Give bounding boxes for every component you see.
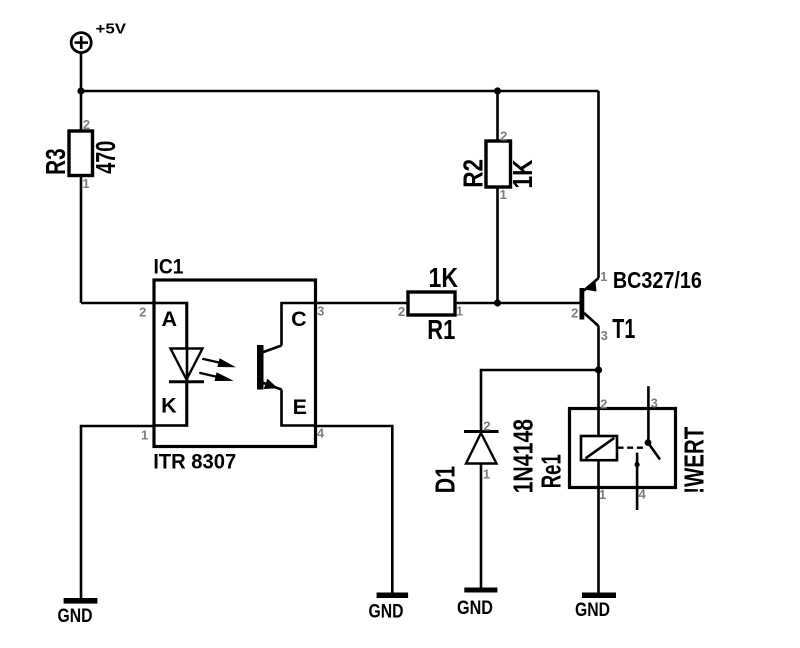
junction rail-left: [77, 87, 84, 94]
phototransistor emitter: [262, 379, 282, 390]
svg-text:4: 4: [638, 486, 646, 501]
ground GND4: [575, 593, 616, 622]
LED cathode lead: [185, 382, 188, 426]
svg-text:ITR 8307: ITR 8307: [153, 449, 236, 473]
LED triangle: [171, 349, 203, 380]
phototransistor base bar: [257, 345, 264, 390]
svg-text:GND: GND: [575, 600, 610, 621]
relay switch common lead pin 3: [647, 386, 650, 442]
svg-text:1K: 1K: [429, 262, 459, 293]
wire junction to relay coil: [597, 370, 600, 436]
wire IC1 pin4 to GND: [316, 426, 393, 593]
svg-text:1: 1: [456, 303, 463, 318]
svg-text:IC1: IC1: [154, 254, 184, 278]
IC1 phototransistor box: [282, 303, 316, 426]
svg-text:1: 1: [141, 428, 148, 443]
wire top rail: [81, 90, 599, 93]
svg-text:K: K: [161, 393, 177, 417]
resistor R1: [408, 292, 455, 315]
svg-text:GND: GND: [369, 601, 404, 622]
svg-text:1K: 1K: [507, 160, 538, 189]
IC1 LED box: [154, 303, 187, 426]
wire coil to GND: [597, 460, 600, 592]
T1 emitter wire from rail: [597, 91, 600, 278]
wire R2 to base wire: [496, 187, 499, 303]
LED anode lead: [185, 303, 188, 349]
svg-text:3: 3: [651, 396, 658, 411]
svg-text:4: 4: [317, 426, 325, 441]
resistor R3: [69, 131, 93, 176]
ground GND2: [369, 593, 409, 623]
svg-text:R2: R2: [457, 159, 488, 188]
svg-text:2: 2: [398, 304, 405, 319]
svg-text:3: 3: [601, 328, 608, 343]
svg-text:R3: R3: [40, 148, 71, 175]
svg-text:2: 2: [571, 306, 578, 321]
svg-text:A: A: [162, 307, 178, 331]
svg-text:C: C: [291, 307, 307, 331]
diode D1 triangle: [466, 433, 497, 464]
op-amp IC1 outer box: [154, 280, 316, 447]
svg-text:3: 3: [317, 303, 324, 318]
svg-text:1N4148: 1N4148: [508, 419, 539, 494]
svg-text:GND: GND: [58, 606, 93, 627]
wire R1 to T1 base: [455, 302, 580, 305]
relay Re1 box: [570, 409, 676, 488]
svg-text:1: 1: [500, 187, 507, 202]
T1 emitter diagonal with arrow: [584, 278, 599, 291]
wire IC1 pin1 to GND: [81, 426, 154, 598]
phototransistor collector: [262, 346, 282, 353]
junction T1-D1-relay: [595, 366, 602, 373]
relay NO contact dot: [635, 462, 640, 467]
svg-text:2: 2: [483, 419, 490, 434]
light arrow 1: [202, 358, 236, 367]
relay coil: [581, 436, 617, 460]
svg-text:Re1: Re1: [536, 454, 567, 488]
junction R1-R2: [494, 299, 501, 306]
svg-text:1: 1: [483, 467, 490, 482]
junction rail-R2: [494, 87, 501, 94]
svg-text:D1: D1: [430, 466, 461, 493]
ground GND1: [58, 598, 98, 627]
wire rail to R2: [496, 91, 499, 141]
relay switch pivot: [645, 439, 652, 446]
wire junction to D1: [481, 370, 599, 432]
wire to IC1 left: [81, 302, 154, 305]
wire IC1 pin3 to R1: [316, 302, 409, 305]
svg-text:1: 1: [599, 487, 606, 502]
relay switch blade: [648, 443, 660, 460]
svg-text:E: E: [293, 395, 307, 419]
svg-text:1: 1: [600, 269, 607, 284]
wire D1 to GND: [480, 464, 483, 588]
svg-text:2: 2: [139, 304, 146, 319]
svg-text:GND: GND: [457, 598, 493, 619]
resistor R2: [486, 141, 511, 187]
ground GND3: [457, 588, 497, 619]
+5V supply symbol: [71, 33, 91, 53]
svg-text:470: 470: [90, 141, 121, 174]
relay NO contact lead pin 4: [636, 453, 639, 510]
svg-text:BC327/16: BC327/16: [613, 267, 702, 293]
svg-text:+5V: +5V: [96, 22, 127, 38]
wire +5V to rail: [80, 53, 83, 131]
svg-text:1: 1: [82, 176, 89, 191]
svg-text:R1: R1: [427, 314, 455, 345]
T1 collector diagonal: [584, 313, 599, 326]
svg-text:2: 2: [83, 117, 90, 132]
svg-text:!WERT: !WERT: [679, 427, 710, 494]
relay actuation dashed link: [618, 447, 647, 449]
light arrow 2: [199, 372, 233, 381]
svg-text:2: 2: [500, 129, 507, 144]
transistor T1 base bar: [580, 288, 585, 320]
wire R3 to IC1 pin2: [80, 176, 83, 304]
diode D1 cathode bar: [464, 430, 499, 433]
svg-text:2: 2: [600, 397, 607, 412]
svg-text:T1: T1: [612, 313, 635, 344]
LED cathode bar: [169, 380, 204, 383]
T1 collector wire down: [597, 326, 600, 370]
